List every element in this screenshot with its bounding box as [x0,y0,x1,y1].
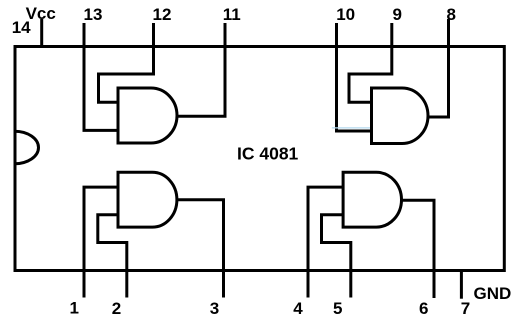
wire pin 12 to gate U1D input A [99,23,154,102]
wire pin 13 to gate U1D input B [84,23,118,130]
AND gate U1D (pins 12,13 -> 11) [118,88,177,143]
svg-text:1: 1 [70,299,79,318]
svg-text:8: 8 [447,5,456,24]
svg-text:2: 2 [112,299,121,318]
svg-text:GND: GND [474,284,512,303]
svg-text:9: 9 [393,5,402,24]
wire gate U1C output to pin 8 [427,19,449,117]
wire pin 10 to gate U1C input B [337,23,372,131]
svg-text:10: 10 [336,5,355,24]
IC pin-1 orientation notch [15,131,39,164]
svg-text:14: 14 [12,18,31,37]
AND gate U1B (pins 4,5 -> 6) [343,172,401,227]
wire pin 14 stub (Vcc) [40,19,43,47]
wire gate U1A output to pin 3 [177,200,224,298]
svg-text:7: 7 [461,299,470,318]
wire gate U1B output to pin 6 [402,200,435,298]
svg-text:3: 3 [210,299,219,318]
svg-text:13: 13 [84,5,103,24]
svg-text:5: 5 [333,299,342,318]
stray highlight line near pin 10 wire [332,127,372,129]
svg-text:6: 6 [419,299,428,318]
wire pin 9 to gate U1C input A [349,23,392,102]
AND gate U1A (pins 1,2 -> 3) [118,172,177,227]
svg-text:4: 4 [293,299,303,318]
AND gate U1C (pins 9,10 -> 8) [372,88,429,144]
wire pin 5 to gate U1B input B [322,215,351,298]
wire pin 1 to gate U1A input A [84,187,118,297]
wire gate U1D output to pin 11 [176,23,225,116]
svg-text:11: 11 [223,5,241,24]
wire pin 4 to gate U1B input A [308,187,343,297]
IC U1 body outline [15,47,504,271]
wire pin 7 stub (GND) [460,271,463,299]
svg-text:12: 12 [153,5,172,24]
svg-text:IC 4081: IC 4081 [237,144,299,164]
wire pin 2 to gate U1A input B [98,215,127,298]
